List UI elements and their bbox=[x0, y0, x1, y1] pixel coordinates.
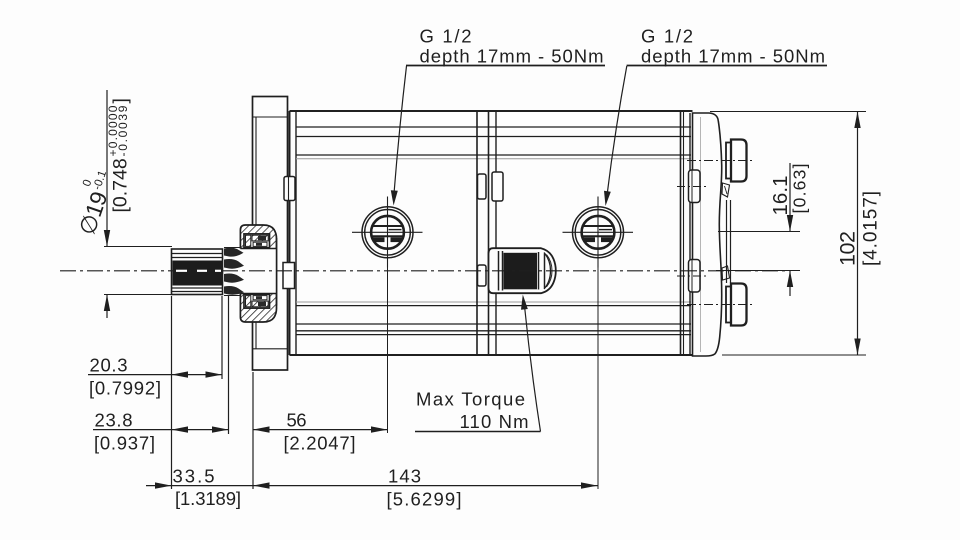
torque plug outline bbox=[489, 248, 556, 293]
leader 1 arrowhead bbox=[391, 190, 398, 205]
centerline white dashes over spline bbox=[176, 270, 187, 272]
arrows dim 102 bbox=[854, 112, 860, 129]
shaft axis centerline bbox=[60, 270, 787, 272]
hub bore opening bbox=[234, 249, 276, 294]
plug black body bbox=[504, 253, 538, 289]
svg-text:]: ] bbox=[110, 98, 132, 103]
DIMENSIONS GROUP bbox=[88, 66, 866, 490]
svg-text:[4.0157]: [4.0157] bbox=[861, 191, 882, 266]
seal box upper bbox=[244, 234, 270, 248]
port P1 crosshair bbox=[352, 231, 423, 233]
dia19 ext lines bbox=[104, 246, 172, 248]
coupling teeth bbox=[224, 248, 244, 257]
G12 label 1 underline bbox=[406, 65, 605, 67]
leader 2 arrowhead bbox=[604, 191, 611, 206]
end cover upper boss bbox=[689, 170, 701, 203]
shaft shoulder ledges bbox=[224, 247, 240, 249]
ext line flange face bbox=[252, 372, 254, 489]
svg-text:G 1/2: G 1/2 bbox=[641, 26, 693, 47]
dim 16.1 ext lines bbox=[718, 231, 800, 233]
svg-text:[0.748: [0.748 bbox=[110, 158, 132, 212]
plug inner dome line bbox=[544, 253, 551, 290]
svg-text:56: 56 bbox=[287, 410, 307, 431]
stud plate between bolts bbox=[726, 200, 728, 283]
TEXT GROUP bbox=[74, 26, 882, 510]
dim 102 vertical line bbox=[857, 112, 859, 356]
body horizontal plate lines top bbox=[296, 126, 691, 128]
bolt B1 top (neck and hex head) bbox=[726, 143, 731, 179]
svg-text:23.8: 23.8 bbox=[95, 410, 133, 431]
svg-text:-0.0039: -0.0039 bbox=[116, 105, 130, 156]
svg-text:33.5: 33.5 bbox=[173, 466, 215, 487]
arrows dim 33.5-143 bbox=[155, 482, 172, 488]
0.748 tolerance rotated text bbox=[106, 98, 132, 212]
ext line spline end bbox=[221, 296, 223, 379]
bolt B1 centerline bbox=[687, 160, 753, 162]
svg-text:Max Torque: Max Torque bbox=[416, 389, 525, 410]
hub bore lines bbox=[240, 248, 276, 250]
end cover outline bbox=[693, 113, 722, 356]
port P2 thread circle bbox=[582, 216, 615, 249]
bolt B2 bottom (neck and hex head) bbox=[726, 287, 731, 323]
G12 leader 1 bbox=[394, 66, 407, 196]
svg-text:102: 102 bbox=[835, 231, 859, 266]
dia19 dim line lower bbox=[106, 295, 108, 319]
svg-text:[0.63]: [0.63] bbox=[790, 164, 810, 214]
dim 20.3 line bbox=[88, 374, 222, 376]
joint 1 upper tabs bbox=[478, 174, 487, 199]
svg-text:[1.3189]: [1.3189] bbox=[175, 488, 241, 509]
joint 2 lines before end cover bbox=[680, 111, 682, 355]
dim 23.8 line bbox=[93, 429, 229, 431]
dim 102 ext lines bbox=[710, 111, 866, 113]
svg-text:depth 17mm - 50Nm: depth 17mm - 50Nm bbox=[641, 45, 825, 66]
port P1 thread circle bbox=[371, 216, 404, 249]
ext line port P2 center bbox=[597, 268, 599, 490]
end cover lower boss bbox=[689, 260, 701, 293]
svg-text:110 Nm: 110 Nm bbox=[460, 411, 529, 432]
svg-text:[0.7992]: [0.7992] bbox=[89, 378, 161, 399]
G12 leader 2 bbox=[607, 66, 627, 197]
PUMP BODY GROUP bbox=[60, 97, 787, 371]
ext line washer bbox=[228, 296, 230, 434]
svg-text:[5.6299]: [5.6299] bbox=[387, 489, 462, 510]
cover lip above bottom bolt bbox=[722, 266, 730, 280]
svg-text:[0.937]: [0.937] bbox=[94, 433, 155, 454]
dim 56 line bbox=[253, 429, 388, 431]
seal box lower bbox=[244, 294, 270, 308]
joint 1 between pump sections bbox=[476, 111, 478, 355]
ext line port P1 center bbox=[387, 268, 389, 434]
max torque leader bbox=[525, 306, 541, 432]
port P2 crosshair bbox=[563, 231, 634, 233]
plug right washer bbox=[538, 252, 540, 290]
arrows dim 56 bbox=[253, 426, 270, 432]
joint 1 lower tab bbox=[478, 265, 487, 286]
boss centerline marks bbox=[677, 186, 708, 188]
ext line shaft left end bbox=[171, 296, 173, 489]
svg-text:G 1/2: G 1/2 bbox=[420, 26, 472, 47]
flange-body upper tab bbox=[284, 177, 295, 201]
dia19 rotated text bbox=[74, 188, 113, 238]
hub right face line bbox=[276, 238, 278, 306]
dim 16.1 vertical line bbox=[789, 163, 791, 232]
port P1 inner chords bbox=[372, 225, 402, 227]
dim 33.5-143 line bbox=[146, 485, 598, 487]
dia19 dim line upper bbox=[106, 90, 108, 247]
svg-text:143: 143 bbox=[388, 466, 421, 487]
max torque underline bbox=[415, 431, 541, 433]
plug left washer bbox=[498, 251, 500, 291]
ARROWHEADS GROUP bbox=[104, 112, 861, 489]
svg-text:20.3: 20.3 bbox=[90, 355, 128, 376]
shaft end rect at flange bore bbox=[283, 263, 295, 289]
arrows dim 23.8 bbox=[172, 426, 189, 432]
port P2 outer rings bbox=[573, 207, 624, 258]
drive shaft spline block bbox=[172, 249, 223, 295]
body section outlines bbox=[290, 110, 693, 112]
body horizontal plate lines bottom bbox=[296, 301, 691, 303]
svg-text:[2.2047]: [2.2047] bbox=[284, 433, 356, 454]
svg-text:depth 17mm - 50Nm: depth 17mm - 50Nm bbox=[420, 45, 604, 66]
G12 label 2 underline bbox=[627, 65, 827, 67]
arrows dim 20.3 bbox=[172, 371, 189, 377]
arrows dim 16.1 bbox=[787, 215, 793, 232]
spline dark band bbox=[173, 261, 223, 286]
port P1 outer rings bbox=[362, 207, 413, 258]
mounting flange plate bbox=[253, 97, 288, 371]
bolt B2 centerline bbox=[687, 304, 753, 306]
arrows dia19 bbox=[104, 230, 110, 247]
bearing hub outline hatched bbox=[240, 225, 276, 322]
torque leader arrowhead bbox=[521, 295, 528, 310]
port P2 inner chords bbox=[583, 225, 613, 227]
cover lip below top bolt bbox=[722, 183, 730, 197]
